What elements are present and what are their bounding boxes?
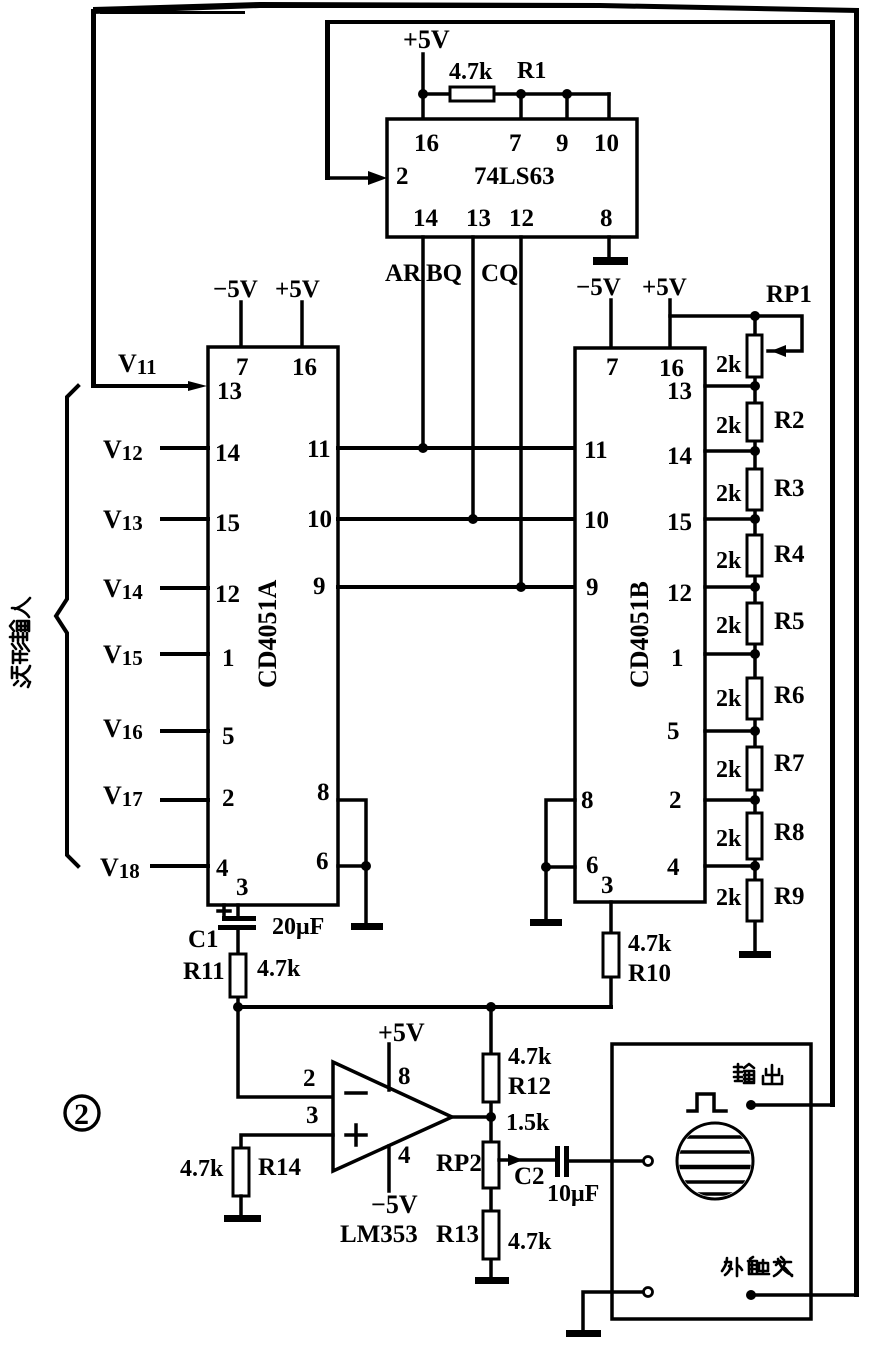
- svg-text:R1: R1: [517, 58, 546, 84]
- svg-text:−5V: −5V: [371, 1190, 418, 1219]
- svg-text:R11: R11: [183, 958, 225, 985]
- brace waveform inputs: [56, 386, 78, 866]
- svg-text:11: 11: [307, 436, 331, 463]
- ground under A pins 8/6: [351, 923, 383, 930]
- svg-text:AR: AR: [385, 260, 422, 287]
- svg-text:LM353: LM353: [340, 1221, 418, 1248]
- svg-text:3: 3: [306, 1102, 319, 1129]
- wire CQ pin12 down: [519, 237, 523, 587]
- svg-text:2k: 2k: [716, 413, 742, 439]
- svg-text:10: 10: [307, 506, 332, 533]
- node ladder junction 14: [750, 446, 760, 456]
- wire op-amp pin8 power: [387, 1044, 391, 1090]
- wire pin10 stub: [607, 94, 611, 119]
- wire V14: [162, 586, 208, 590]
- svg-text:12: 12: [667, 580, 692, 607]
- node ladder junction 4: [750, 861, 760, 871]
- svg-text:14: 14: [667, 443, 693, 470]
- svg-text:7: 7: [509, 130, 522, 157]
- wire pin7 stub: [519, 94, 523, 119]
- svg-text:12: 12: [215, 581, 240, 608]
- svg-text:2k: 2k: [716, 757, 742, 783]
- svg-text:74LS63: 74LS63: [474, 163, 555, 190]
- wire A pin3 down: [236, 905, 240, 918]
- svg-text:+5V: +5V: [403, 25, 450, 54]
- svg-text:C1: C1: [188, 926, 219, 953]
- wire AR pin14 down: [421, 237, 425, 448]
- resistor R10: [603, 933, 619, 977]
- svg-text:4: 4: [667, 854, 680, 881]
- svg-text:1: 1: [222, 645, 235, 672]
- wire trigger terminal to right vertical: [751, 1293, 857, 1297]
- IC U2 CD4051A: [208, 347, 338, 905]
- svg-text:2k: 2k: [716, 481, 742, 507]
- svg-text:R14: R14: [258, 1154, 302, 1181]
- node junction op-amp output: [486, 1112, 496, 1122]
- svg-text:R10: R10: [628, 960, 671, 987]
- wire V15: [162, 652, 208, 656]
- oscilloscope screen circle: [677, 1123, 753, 1199]
- node output terminal: [746, 1100, 756, 1110]
- resistor R7: [747, 747, 762, 790]
- svg-text:CD4051B: CD4051B: [625, 581, 654, 688]
- wiper arrow RP1: [771, 345, 786, 357]
- node ladder junction 13: [750, 381, 760, 391]
- figure number 2 circled: [65, 1096, 99, 1130]
- svg-text:2: 2: [303, 1065, 316, 1092]
- svg-text:8: 8: [317, 779, 330, 806]
- svg-text:4.7k: 4.7k: [257, 956, 301, 982]
- node junction rail pin9: [562, 89, 572, 99]
- wire B pin12 to ladder: [705, 585, 755, 589]
- svg-text:BQ: BQ: [426, 260, 462, 287]
- resistor R11: [230, 954, 246, 997]
- svg-text:4.7k: 4.7k: [449, 59, 493, 85]
- op-amp minus input mark: [346, 1091, 366, 1095]
- wire wiper to C2: [499, 1158, 555, 1162]
- svg-text:9: 9: [313, 573, 326, 600]
- svg-text:+5V: +5V: [378, 1018, 425, 1047]
- resistor R1: [450, 87, 494, 101]
- svg-text:R7: R7: [774, 750, 805, 777]
- svg-text:1.5k: 1.5k: [506, 1110, 550, 1136]
- svg-text:4.7k: 4.7k: [508, 1044, 552, 1070]
- wire left vertical V11 feedback: [91, 9, 96, 388]
- wire +5V rail to ladder RP1: [670, 316, 802, 351]
- resistor RP1 element 2k: [747, 335, 762, 377]
- svg-text:R13: R13: [436, 1221, 479, 1248]
- node ladder junction 2: [750, 795, 760, 805]
- wire A pin6 stub: [338, 864, 366, 868]
- ground under R13: [475, 1277, 509, 1284]
- svg-text:R5: R5: [774, 608, 805, 635]
- ground under B pins 8/6: [530, 919, 562, 926]
- svg-text:C2: C2: [514, 1163, 545, 1190]
- wire B pin8 to ground: [546, 800, 575, 920]
- resistor R6: [747, 678, 762, 719]
- wire right vertical external trigger: [854, 9, 859, 1297]
- svg-text:R6: R6: [774, 682, 805, 709]
- svg-text:R9: R9: [774, 883, 805, 910]
- svg-text:5: 5: [667, 718, 680, 745]
- wire row pin10 A to B: [338, 517, 575, 521]
- svg-text:11: 11: [584, 437, 608, 464]
- node ladder junction 12: [750, 582, 760, 592]
- svg-text:3: 3: [601, 872, 614, 899]
- pulse symbol: [688, 1094, 726, 1111]
- wire B pin15 to ladder: [705, 517, 755, 521]
- wire V16: [162, 729, 208, 733]
- svg-text:1: 1: [671, 645, 684, 672]
- svg-text:2k: 2k: [716, 613, 742, 639]
- resistor R2: [747, 403, 762, 441]
- svg-text:8: 8: [600, 205, 613, 232]
- svg-text:4: 4: [398, 1142, 411, 1169]
- svg-text:R3: R3: [774, 475, 805, 502]
- svg-text:9: 9: [586, 574, 599, 601]
- wire vertical output net right side: [830, 20, 835, 1107]
- wire inner top horizontal output feedback: [325, 20, 835, 24]
- resistor R8: [747, 813, 762, 859]
- node junction B pin6: [541, 862, 551, 872]
- node junction CQ row9: [516, 582, 526, 592]
- wire C1 to R11 and down to bus: [236, 930, 240, 1007]
- wire R1 rail: [423, 92, 609, 96]
- capacitor C2: [555, 1146, 560, 1177]
- resistor R14: [233, 1148, 249, 1196]
- svg-text:RP1: RP1: [766, 281, 812, 308]
- svg-text:2: 2: [222, 785, 235, 812]
- node ladder junction 5: [750, 726, 760, 736]
- svg-text:CD4051A: CD4051A: [253, 579, 282, 688]
- svg-text:10: 10: [594, 130, 619, 157]
- wire vertical down to 74LS63 pin 2: [325, 20, 330, 180]
- wire B pin13 to ladder: [705, 384, 755, 388]
- svg-text:14: 14: [413, 205, 439, 232]
- svg-text:−5V: −5V: [576, 274, 621, 301]
- wire into pin 2 with arrow: [327, 176, 372, 180]
- wire A pin8 to ground: [338, 800, 366, 925]
- svg-text:5: 5: [222, 723, 235, 750]
- wire +5V stub to rail: [421, 54, 425, 119]
- wire R14 to ground: [239, 1196, 243, 1217]
- ground under R14: [224, 1215, 261, 1222]
- svg-text:14: 14: [215, 440, 241, 467]
- svg-text:R2: R2: [774, 407, 805, 434]
- wiper arrow RP2: [508, 1154, 523, 1166]
- wire B pin1 to ladder: [705, 652, 755, 656]
- IC U1 74LS63: [387, 119, 637, 237]
- node junction AR row11: [418, 443, 428, 453]
- wire V17: [162, 798, 208, 802]
- node scope input terminal open: [644, 1157, 653, 1166]
- svg-text:8: 8: [398, 1063, 411, 1090]
- wire B pin3 down through R10 to bus: [609, 902, 613, 1007]
- svg-text:2: 2: [396, 163, 409, 190]
- wire pin8 to ground: [607, 237, 611, 258]
- wire -5V stub B pin7: [609, 300, 613, 348]
- wire op-amp pin4 power: [387, 1146, 391, 1191]
- svg-text:2k: 2k: [716, 826, 742, 852]
- node junction A pin6: [361, 861, 371, 871]
- svg-text:20μF: 20μF: [272, 914, 324, 940]
- wire V11 with arrow: [93, 384, 192, 388]
- wire bottom-left terminal to ground: [583, 1292, 643, 1332]
- svg-text:13: 13: [667, 378, 692, 405]
- IC U3 CD4051B: [575, 348, 705, 902]
- svg-text:4: 4: [216, 855, 229, 882]
- wire B pin2 to ladder: [705, 798, 755, 802]
- wire summing bus horizontal: [238, 1005, 611, 1009]
- node junction BQ row10: [468, 514, 478, 524]
- svg-text:13: 13: [217, 378, 242, 405]
- svg-text:2k: 2k: [716, 686, 742, 712]
- wire -5V stub A pin7: [239, 302, 243, 347]
- svg-text:9: 9: [556, 130, 569, 157]
- wire op-amp output to junction: [452, 1115, 491, 1119]
- node ladder top junction: [750, 311, 760, 321]
- wire B pin14 to ladder: [705, 449, 755, 453]
- svg-text:15: 15: [667, 509, 692, 536]
- svg-text:7: 7: [606, 354, 619, 381]
- wire top border net V11 to external trigger: [93, 2, 859, 14]
- svg-text:−5V: −5V: [213, 276, 258, 303]
- svg-text:16: 16: [292, 354, 317, 381]
- svg-text:8: 8: [581, 787, 594, 814]
- svg-text:2: 2: [669, 787, 682, 814]
- wire V13: [162, 517, 208, 521]
- svg-text:R8: R8: [774, 819, 805, 846]
- wire V12: [162, 446, 208, 450]
- capacitor C1 plus sign: [218, 905, 230, 917]
- op-amp plus input mark: [346, 1125, 366, 1145]
- resistor R5: [747, 603, 762, 644]
- wire ladder vertical: [753, 316, 757, 953]
- wire BQ pin13 down: [471, 237, 475, 519]
- resistor R4: [747, 535, 762, 576]
- op-amp U4 LM353: [333, 1062, 452, 1171]
- wire pin9 stub: [565, 94, 569, 119]
- svg-text:+5V: +5V: [642, 274, 687, 301]
- node ladder junction 1: [750, 649, 760, 659]
- potentiometer RP2: [483, 1142, 499, 1188]
- wire B pin4 to ladder: [705, 864, 755, 868]
- label external trigger (Chinese): [722, 1257, 792, 1276]
- svg-text:2k: 2k: [716, 548, 742, 574]
- node trigger bottom-left terminal open: [644, 1288, 653, 1297]
- wire B pin6 stub: [546, 865, 575, 869]
- wire V18: [152, 864, 208, 868]
- wire B pin5 to ladder: [705, 729, 755, 733]
- wire row pin9 A to B: [338, 585, 575, 589]
- svg-text:CQ: CQ: [481, 260, 519, 287]
- label waveform input (Chinese vertical): [10, 598, 30, 687]
- svg-text:4.7k: 4.7k: [508, 1229, 552, 1255]
- svg-text:2: 2: [74, 1098, 89, 1131]
- resistor R12: [483, 1054, 499, 1102]
- svg-text:+5V: +5V: [275, 276, 320, 303]
- resistor R9: [747, 880, 762, 921]
- svg-text:3: 3: [236, 874, 249, 901]
- ground under oscilloscope: [566, 1330, 601, 1337]
- wire +5V stub A pin16: [300, 302, 304, 347]
- svg-text:4.7k: 4.7k: [628, 931, 672, 957]
- node junction R11 bus: [233, 1002, 243, 1012]
- svg-text:10: 10: [584, 507, 609, 534]
- ground under ladder R9: [739, 951, 771, 958]
- node junction rail pin16: [418, 89, 428, 99]
- svg-text:R4: R4: [774, 541, 805, 568]
- resistor R13: [483, 1211, 499, 1259]
- svg-text:2k: 2k: [716, 352, 742, 378]
- svg-text:R12: R12: [508, 1073, 551, 1100]
- node trigger right terminal: [746, 1290, 756, 1300]
- svg-text:6: 6: [316, 848, 329, 875]
- svg-text:RP2: RP2: [436, 1150, 482, 1177]
- capacitor C1 plates: [222, 916, 256, 921]
- wire output column R12 RP2 R13: [489, 1007, 493, 1279]
- svg-text:2k: 2k: [716, 885, 742, 911]
- wire output terminal to right: [751, 1103, 832, 1107]
- node ladder junction 15: [750, 514, 760, 524]
- wire bus down to op-amp pin2: [238, 1007, 333, 1097]
- svg-text:6: 6: [586, 852, 599, 879]
- oscilloscope box: [612, 1044, 811, 1319]
- svg-text:13: 13: [466, 205, 491, 232]
- wire op-amp pin3 to R14: [241, 1135, 333, 1148]
- ground under 74LS63 pin 8: [593, 257, 628, 265]
- wire +5V stub B pin16: [668, 300, 672, 348]
- svg-text:4.7k: 4.7k: [180, 1156, 224, 1182]
- node junction R12 bus: [486, 1002, 496, 1012]
- wire row pin11 A to B: [338, 446, 575, 450]
- label output (Chinese): [734, 1064, 782, 1084]
- svg-text:12: 12: [509, 205, 534, 232]
- node junction rail pin7: [516, 89, 526, 99]
- resistor R3: [747, 469, 762, 510]
- wire C2 to scope input: [569, 1159, 643, 1163]
- svg-text:10μF: 10μF: [547, 1181, 599, 1207]
- svg-text:15: 15: [215, 510, 240, 537]
- svg-text:16: 16: [414, 130, 439, 157]
- svg-text:7: 7: [236, 354, 249, 381]
